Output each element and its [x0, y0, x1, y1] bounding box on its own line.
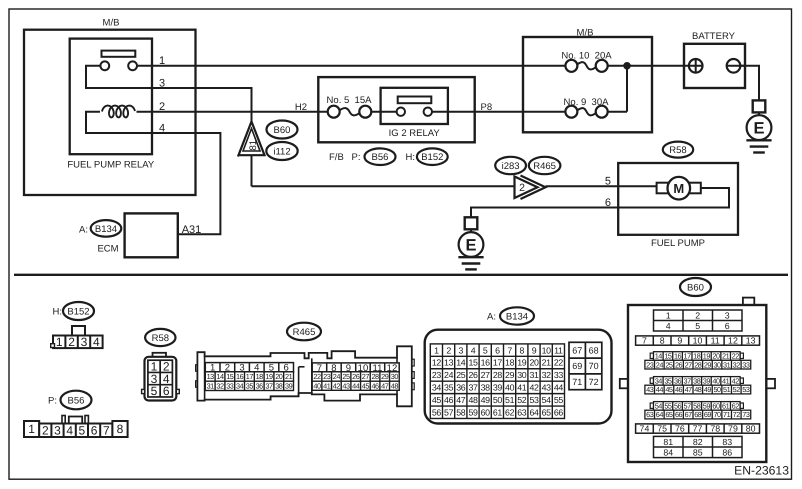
svg-text:67: 67 — [685, 410, 693, 419]
svg-text:21: 21 — [285, 372, 293, 381]
svg-text:81: 81 — [248, 140, 259, 151]
svg-text:64: 64 — [529, 407, 539, 417]
svg-text:37: 37 — [684, 377, 692, 386]
svg-text:25: 25 — [342, 372, 350, 381]
svg-text:29: 29 — [505, 370, 515, 380]
svg-text:12: 12 — [432, 358, 442, 368]
svg-text:9: 9 — [677, 336, 682, 346]
svg-text:66: 66 — [554, 407, 564, 417]
svg-text:32: 32 — [733, 360, 741, 369]
svg-text:A:: A: — [79, 225, 88, 236]
svg-text:13: 13 — [746, 336, 756, 346]
svg-text:34: 34 — [655, 377, 663, 386]
svg-text:1: 1 — [56, 335, 63, 349]
svg-text:23: 23 — [432, 370, 442, 380]
svg-text:5: 5 — [151, 384, 158, 398]
svg-text:E: E — [753, 119, 764, 137]
svg-text:No. 5 15A: No. 5 15A — [327, 95, 373, 106]
svg-text:46: 46 — [675, 385, 683, 394]
svg-text:71: 71 — [572, 377, 582, 387]
svg-text:1: 1 — [159, 55, 165, 67]
svg-text:24: 24 — [333, 372, 341, 381]
svg-text:P8: P8 — [481, 102, 493, 113]
svg-text:56: 56 — [432, 407, 442, 417]
svg-text:FUEL PUMP: FUEL PUMP — [651, 238, 705, 249]
svg-text:49: 49 — [704, 385, 712, 394]
svg-text:21: 21 — [542, 358, 552, 368]
svg-text:31: 31 — [207, 381, 215, 390]
svg-text:15: 15 — [664, 352, 672, 361]
svg-text:59: 59 — [703, 402, 711, 411]
svg-text:67: 67 — [572, 345, 582, 355]
svg-text:BATTERY: BATTERY — [692, 31, 736, 42]
svg-text:i283: i283 — [502, 161, 520, 172]
svg-text:40: 40 — [505, 383, 515, 393]
svg-text:9: 9 — [532, 345, 537, 355]
svg-text:63: 63 — [646, 410, 654, 419]
svg-text:73: 73 — [742, 410, 750, 419]
svg-text:31: 31 — [723, 360, 731, 369]
svg-text:17: 17 — [493, 358, 503, 368]
svg-text:60: 60 — [481, 407, 491, 417]
svg-text:57: 57 — [684, 402, 692, 411]
svg-text:33: 33 — [742, 360, 750, 369]
svg-text:58: 58 — [456, 407, 466, 417]
svg-text:B134: B134 — [506, 312, 528, 323]
svg-text:60: 60 — [712, 402, 720, 411]
svg-text:65: 65 — [665, 410, 673, 419]
svg-text:80: 80 — [746, 424, 756, 434]
svg-text:15: 15 — [226, 372, 234, 381]
svg-text:65: 65 — [542, 407, 552, 417]
svg-text:14: 14 — [655, 352, 663, 361]
svg-text:44: 44 — [352, 381, 360, 390]
svg-text:30: 30 — [713, 360, 721, 369]
svg-text:29: 29 — [381, 372, 389, 381]
svg-text:41: 41 — [722, 377, 730, 386]
svg-text:FUEL PUMP RELAY: FUEL PUMP RELAY — [67, 160, 155, 171]
svg-text:28: 28 — [371, 372, 379, 381]
svg-text:44: 44 — [656, 385, 664, 394]
svg-text:H:: H: — [406, 152, 416, 163]
svg-text:43: 43 — [342, 381, 350, 390]
svg-text:66: 66 — [675, 410, 683, 419]
svg-text:M/B: M/B — [577, 27, 594, 38]
svg-text:41: 41 — [517, 383, 527, 393]
svg-text:24: 24 — [656, 360, 664, 369]
svg-text:72: 72 — [733, 410, 741, 419]
svg-text:2: 2 — [159, 101, 165, 113]
svg-text:68: 68 — [694, 410, 702, 419]
svg-text:17: 17 — [246, 372, 254, 381]
svg-text:39: 39 — [285, 381, 293, 390]
svg-text:47: 47 — [381, 381, 389, 390]
svg-text:2: 2 — [68, 335, 75, 349]
svg-text:14: 14 — [456, 358, 466, 368]
svg-text:54: 54 — [655, 402, 663, 411]
svg-text:i112: i112 — [273, 147, 290, 158]
svg-text:B152: B152 — [421, 152, 443, 163]
svg-text:74: 74 — [640, 424, 650, 434]
svg-text:EN-23613: EN-23613 — [734, 464, 789, 478]
svg-text:56: 56 — [674, 402, 682, 411]
svg-text:25: 25 — [456, 370, 466, 380]
svg-text:35: 35 — [444, 383, 454, 393]
svg-text:13: 13 — [207, 372, 215, 381]
svg-text:6: 6 — [605, 197, 611, 209]
svg-text:10: 10 — [542, 345, 552, 355]
svg-text:R58: R58 — [152, 333, 169, 344]
svg-text:20: 20 — [275, 372, 283, 381]
svg-text:49: 49 — [481, 395, 491, 405]
svg-text:47: 47 — [456, 395, 466, 405]
svg-text:22: 22 — [313, 372, 321, 381]
svg-text:76: 76 — [675, 424, 685, 434]
svg-text:68: 68 — [589, 345, 599, 355]
svg-text:2: 2 — [695, 310, 700, 320]
svg-text:4: 4 — [93, 335, 100, 349]
svg-text:77: 77 — [693, 424, 703, 434]
svg-text:45: 45 — [665, 385, 673, 394]
svg-text:79: 79 — [728, 424, 738, 434]
svg-text:12: 12 — [728, 336, 738, 346]
svg-text:48: 48 — [468, 395, 478, 405]
svg-text:51: 51 — [723, 385, 731, 394]
svg-text:33: 33 — [554, 370, 564, 380]
svg-text:70: 70 — [589, 361, 599, 371]
svg-text:B56: B56 — [68, 396, 85, 407]
svg-text:18: 18 — [505, 358, 515, 368]
svg-text:26: 26 — [468, 370, 478, 380]
svg-text:3: 3 — [725, 310, 730, 320]
svg-text:8: 8 — [117, 422, 124, 436]
svg-text:53: 53 — [529, 395, 539, 405]
svg-text:18: 18 — [256, 372, 264, 381]
svg-text:45: 45 — [432, 395, 442, 405]
svg-text:61: 61 — [722, 402, 730, 411]
svg-text:50: 50 — [493, 395, 503, 405]
svg-text:A:: A: — [487, 312, 496, 323]
svg-text:B60: B60 — [687, 283, 704, 294]
svg-text:3: 3 — [54, 424, 61, 438]
svg-text:H:: H: — [53, 307, 63, 318]
svg-text:13: 13 — [444, 358, 454, 368]
svg-text:40: 40 — [712, 377, 720, 386]
svg-text:62: 62 — [732, 402, 740, 411]
svg-text:42: 42 — [529, 383, 539, 393]
svg-text:R465: R465 — [533, 161, 556, 172]
svg-text:38: 38 — [481, 383, 491, 393]
svg-text:48: 48 — [694, 385, 702, 394]
svg-text:20: 20 — [529, 358, 539, 368]
svg-text:27: 27 — [685, 360, 693, 369]
svg-text:20: 20 — [712, 352, 720, 361]
svg-text:A31: A31 — [182, 224, 202, 236]
svg-text:7: 7 — [103, 424, 110, 438]
svg-text:4: 4 — [66, 424, 73, 438]
svg-text:34: 34 — [236, 381, 244, 390]
svg-text:E: E — [465, 236, 476, 254]
svg-text:64: 64 — [656, 410, 664, 419]
svg-text:33: 33 — [226, 381, 234, 390]
svg-text:7: 7 — [507, 345, 512, 355]
svg-text:6: 6 — [91, 424, 98, 438]
svg-text:59: 59 — [468, 407, 478, 417]
svg-text:48: 48 — [391, 381, 399, 390]
svg-text:62: 62 — [505, 407, 515, 417]
svg-text:16: 16 — [236, 372, 244, 381]
svg-text:47: 47 — [685, 385, 693, 394]
svg-text:44: 44 — [554, 383, 564, 393]
svg-text:23: 23 — [646, 360, 654, 369]
svg-text:19: 19 — [517, 358, 527, 368]
svg-text:19: 19 — [265, 372, 273, 381]
svg-text:4: 4 — [471, 345, 476, 355]
svg-text:ECM: ECM — [97, 244, 118, 255]
svg-text:30: 30 — [517, 370, 527, 380]
svg-text:11: 11 — [554, 345, 563, 355]
svg-text:5: 5 — [605, 176, 611, 188]
svg-text:15: 15 — [468, 358, 478, 368]
svg-text:3: 3 — [81, 335, 88, 349]
svg-text:32: 32 — [542, 370, 552, 380]
svg-text:69: 69 — [704, 410, 712, 419]
svg-text:R58: R58 — [669, 145, 686, 156]
svg-text:83: 83 — [722, 437, 732, 447]
svg-text:30: 30 — [391, 372, 399, 381]
svg-text:H2: H2 — [295, 102, 307, 113]
svg-text:22: 22 — [732, 352, 740, 361]
svg-text:81: 81 — [663, 437, 673, 447]
svg-text:2: 2 — [42, 424, 49, 438]
svg-text:4: 4 — [666, 321, 671, 331]
svg-text:5: 5 — [79, 424, 86, 438]
svg-text:26: 26 — [675, 360, 683, 369]
svg-text:63: 63 — [517, 407, 527, 417]
svg-text:51: 51 — [505, 395, 515, 405]
svg-text:46: 46 — [444, 395, 454, 405]
svg-text:B56: B56 — [372, 152, 389, 163]
svg-text:82: 82 — [693, 437, 703, 447]
svg-text:23: 23 — [323, 372, 331, 381]
svg-text:4: 4 — [159, 122, 165, 134]
svg-text:28: 28 — [694, 360, 702, 369]
svg-text:37: 37 — [265, 381, 273, 390]
svg-text:28: 28 — [493, 370, 503, 380]
svg-text:70: 70 — [713, 410, 721, 419]
svg-text:46: 46 — [371, 381, 379, 390]
svg-text:36: 36 — [256, 381, 264, 390]
svg-text:7: 7 — [642, 336, 647, 346]
svg-text:24: 24 — [444, 370, 454, 380]
svg-text:3: 3 — [459, 345, 464, 355]
svg-text:71: 71 — [723, 410, 731, 419]
svg-text:21: 21 — [722, 352, 730, 361]
svg-text:39: 39 — [703, 377, 711, 386]
svg-text:31: 31 — [529, 370, 539, 380]
svg-text:78: 78 — [710, 424, 720, 434]
svg-text:16: 16 — [674, 352, 682, 361]
svg-text:54: 54 — [542, 395, 552, 405]
svg-text:M: M — [673, 181, 684, 196]
svg-text:B152: B152 — [67, 307, 89, 318]
svg-text:2: 2 — [519, 182, 525, 194]
svg-text:27: 27 — [362, 372, 370, 381]
svg-text:IG 2 RELAY: IG 2 RELAY — [389, 128, 441, 139]
svg-text:52: 52 — [733, 385, 741, 394]
svg-text:17: 17 — [684, 352, 692, 361]
svg-text:8: 8 — [660, 336, 665, 346]
svg-text:R465: R465 — [293, 327, 316, 338]
svg-text:11: 11 — [711, 336, 720, 346]
svg-text:5: 5 — [695, 321, 700, 331]
svg-text:29: 29 — [704, 360, 712, 369]
svg-text:55: 55 — [664, 402, 672, 411]
svg-text:43: 43 — [646, 385, 654, 394]
svg-text:36: 36 — [674, 377, 682, 386]
svg-text:40: 40 — [313, 381, 321, 390]
svg-text:55: 55 — [554, 395, 564, 405]
svg-text:58: 58 — [693, 402, 701, 411]
svg-text:6: 6 — [163, 384, 170, 398]
svg-text:6: 6 — [495, 345, 500, 355]
svg-text:35: 35 — [246, 381, 254, 390]
svg-text:2: 2 — [446, 345, 451, 355]
svg-text:6: 6 — [725, 321, 730, 331]
svg-text:34: 34 — [432, 383, 442, 393]
svg-text:72: 72 — [589, 377, 599, 387]
svg-text:1: 1 — [434, 345, 439, 355]
svg-text:26: 26 — [352, 372, 360, 381]
svg-text:22: 22 — [554, 358, 564, 368]
svg-text:35: 35 — [664, 377, 672, 386]
svg-text:B134: B134 — [95, 224, 117, 235]
svg-text:41: 41 — [323, 381, 331, 390]
svg-text:1: 1 — [666, 310, 671, 320]
svg-text:M/B: M/B — [103, 18, 120, 29]
svg-text:P:: P: — [48, 396, 57, 407]
svg-text:8: 8 — [520, 345, 525, 355]
svg-text:37: 37 — [468, 383, 478, 393]
svg-text:1: 1 — [28, 422, 35, 436]
svg-text:16: 16 — [481, 358, 491, 368]
svg-text:84: 84 — [663, 447, 673, 457]
svg-text:53: 53 — [742, 385, 750, 394]
svg-text:32: 32 — [216, 381, 224, 390]
svg-text:42: 42 — [333, 381, 341, 390]
svg-text:45: 45 — [362, 381, 370, 390]
svg-text:3: 3 — [159, 77, 165, 89]
svg-text:F/B: F/B — [329, 152, 344, 163]
svg-text:61: 61 — [493, 407, 503, 417]
svg-text:27: 27 — [481, 370, 491, 380]
svg-text:B60: B60 — [274, 125, 291, 136]
svg-text:85: 85 — [693, 447, 703, 457]
svg-text:57: 57 — [444, 407, 454, 417]
svg-text:42: 42 — [732, 377, 740, 386]
svg-text:14: 14 — [216, 372, 224, 381]
svg-text:36: 36 — [456, 383, 466, 393]
svg-text:10: 10 — [693, 336, 703, 346]
svg-text:18: 18 — [693, 352, 701, 361]
svg-text:5: 5 — [483, 345, 488, 355]
svg-text:19: 19 — [703, 352, 711, 361]
svg-text:43: 43 — [542, 383, 552, 393]
svg-text:P:: P: — [352, 152, 361, 163]
svg-text:69: 69 — [572, 361, 582, 371]
svg-text:38: 38 — [275, 381, 283, 390]
svg-text:50: 50 — [713, 385, 721, 394]
svg-text:39: 39 — [493, 383, 503, 393]
svg-text:38: 38 — [693, 377, 701, 386]
svg-text:52: 52 — [517, 395, 527, 405]
svg-text:25: 25 — [665, 360, 673, 369]
svg-text:86: 86 — [722, 447, 732, 457]
svg-text:75: 75 — [657, 424, 667, 434]
